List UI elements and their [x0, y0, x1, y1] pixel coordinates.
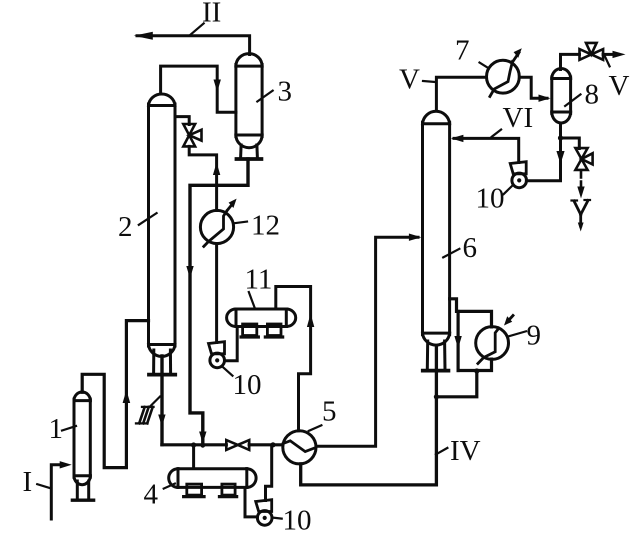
wire feed I into column 1 — [51, 461, 71, 519]
svg-text:4: 4 — [144, 479, 159, 511]
svg-text:II: II — [202, 0, 221, 29]
separator 8 — [552, 69, 571, 123]
wire II product line from drum 3 top — [134, 32, 250, 55]
svg-text:10: 10 — [283, 505, 312, 534]
valve (3-way) at column 2 — [183, 124, 201, 146]
wire separator 8 bottoms to pump 10 top right — [526, 124, 564, 181]
wire branch down into drum 4 — [192, 445, 195, 469]
heat exchanger 12 — [200, 199, 236, 247]
heat exchanger drum 4 — [169, 469, 256, 497]
wire pump 10 bottom discharge to main line — [266, 445, 272, 501]
label 1 — [49, 413, 77, 445]
wire main bottoms line to exchanger 5 — [162, 443, 283, 446]
label 7 — [455, 35, 470, 67]
node junction under separator 8 — [558, 135, 563, 140]
pump 10 middle — [209, 342, 225, 368]
wire drum 4 outlet to pump 10 bottom — [245, 489, 257, 517]
label 10 middle — [222, 366, 262, 401]
wire exchanger 5 bottom / column 6 bottoms line (IV) — [301, 346, 437, 485]
node Y drain symbol — [572, 200, 591, 232]
label 11 — [245, 264, 273, 308]
svg-text:7: 7 — [455, 35, 470, 67]
svg-text:VI: VI — [503, 102, 534, 134]
valve (3-way) drain — [575, 148, 592, 170]
label 3 — [257, 76, 292, 108]
label 6 — [443, 232, 477, 264]
svg-text:V: V — [609, 70, 630, 102]
label 10 bottom — [272, 505, 312, 534]
wire valve to exchanger 12 riser — [189, 146, 220, 210]
label V left — [399, 64, 434, 96]
node junction column 6 bottoms — [434, 394, 439, 399]
wire exchanger 5 right to column 6 feed — [316, 234, 421, 447]
svg-text:6: 6 — [463, 232, 478, 264]
wire exchanger 5 top to drum 11 — [276, 287, 315, 431]
svg-text:8: 8 — [585, 79, 600, 111]
node junction under exchanger 9 — [474, 368, 479, 373]
wire drum 3 bottoms down-left-down to main line — [186, 159, 248, 444]
wire column 2 overhead to drum 3 — [161, 66, 236, 112]
label VI — [492, 102, 533, 137]
label 2 — [118, 211, 157, 243]
heat exchanger 7 — [480, 48, 522, 96]
wire reboiler 9 loop — [439, 299, 492, 397]
wire column 2 side nozzle to valve — [175, 117, 189, 125]
reflux drum 3 — [236, 54, 262, 159]
svg-text:1: 1 — [49, 413, 64, 445]
column 2 — [149, 94, 176, 375]
pump 10 bottom — [256, 500, 272, 526]
heat exchanger 9 — [476, 316, 513, 364]
heat exchanger drum 11 — [227, 309, 296, 337]
wire branch to drain valve under separator 8 — [561, 138, 580, 149]
wire column 6 top to exchanger 7 (stream V) — [436, 77, 550, 111]
svg-text:I: I — [23, 466, 33, 498]
label 8 — [565, 79, 599, 111]
wire column 1 overhead to column 2 — [82, 321, 148, 468]
svg-text:9: 9 — [527, 320, 542, 352]
node junction from drum 3 line — [200, 443, 205, 448]
svg-text:10: 10 — [476, 183, 505, 215]
svg-text:12: 12 — [251, 210, 280, 242]
svg-text:3: 3 — [278, 76, 293, 108]
label II — [191, 0, 222, 35]
label 9 — [508, 320, 541, 352]
label 4 — [144, 479, 175, 511]
node junction to drum 4 — [191, 442, 196, 447]
wire exchanger 12 to pump 10 middle — [215, 244, 218, 343]
wire dashed drain with arrow — [577, 172, 584, 199]
valve (3-way) on V outlet — [580, 43, 604, 60]
svg-text:10: 10 — [233, 369, 262, 401]
label 5 — [309, 396, 337, 431]
label 10 top right — [476, 183, 513, 215]
label V right — [605, 56, 630, 102]
column 1 — [72, 392, 93, 500]
node junction pump discharge — [270, 442, 275, 447]
label 12 — [235, 210, 280, 242]
wire pump 10 top right discharge (stream VI) into column 6 — [451, 135, 519, 163]
svg-text:IV: IV — [450, 435, 481, 467]
heat exchanger 5 — [283, 431, 316, 464]
svg-text:V: V — [399, 64, 420, 96]
label I — [23, 466, 51, 498]
wire pump 10 middle to drum 11 — [225, 327, 238, 361]
pump 10 top right — [510, 162, 526, 188]
svg-text:5: 5 — [322, 396, 337, 428]
wire column 2 bottoms (stream III) — [158, 356, 165, 445]
label IV — [436, 435, 481, 467]
column 6 — [423, 111, 450, 370]
wire separator 8 top to valve and V outlet — [561, 51, 626, 70]
svg-text:11: 11 — [245, 264, 273, 296]
valve on main line — [226, 440, 249, 450]
label III — [136, 397, 160, 424]
svg-text:2: 2 — [118, 211, 133, 243]
